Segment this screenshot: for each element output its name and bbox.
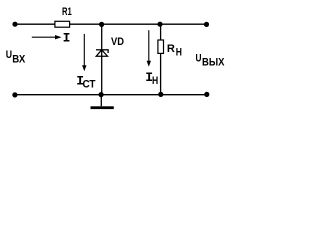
wire zener branch <box>101 24 103 95</box>
resistor R1 <box>55 21 70 27</box>
arrow current I <box>32 35 62 39</box>
svg-text:ВХ: ВХ <box>12 54 26 66</box>
terminal bottom-right <box>204 92 209 97</box>
wire bottom rail <box>15 94 207 96</box>
node zener-top junction <box>99 22 104 27</box>
label I_CT <box>76 73 96 90</box>
arrow current I_n <box>147 30 151 66</box>
svg-text:Н: Н <box>152 75 158 87</box>
node Rn-bottom junction <box>158 92 163 97</box>
node Rn-top junction <box>157 22 162 27</box>
terminal top-right <box>204 22 209 27</box>
label VD <box>111 36 124 48</box>
svg-text:Н: Н <box>176 46 182 58</box>
arrow current I_CT <box>82 34 86 71</box>
label U_vx <box>6 49 26 65</box>
resistor Rn <box>158 40 164 53</box>
svg-text:R: R <box>167 43 175 55</box>
wire ground stub <box>100 95 102 107</box>
label R1 <box>62 6 72 18</box>
label R_n <box>167 43 182 59</box>
zener diode VD <box>96 50 109 56</box>
terminal top-left <box>12 22 17 27</box>
label I_n <box>145 70 158 87</box>
svg-text:ВЫХ: ВЫХ <box>202 57 225 69</box>
svg-text:U: U <box>6 49 12 61</box>
svg-text:VD: VD <box>111 36 124 48</box>
ground <box>91 106 114 109</box>
label I <box>63 31 71 46</box>
wire Rn bottom lead <box>160 53 162 94</box>
svg-text:I: I <box>63 31 71 46</box>
label U_vyx <box>196 53 225 69</box>
svg-text:СТ: СТ <box>83 79 96 91</box>
svg-text:U: U <box>196 53 202 65</box>
node zener-bottom junction <box>99 92 104 97</box>
wire top rail <box>15 23 207 25</box>
svg-text:R1: R1 <box>62 6 72 18</box>
terminal bottom-left <box>12 92 17 97</box>
wire Rn top lead <box>160 24 162 40</box>
